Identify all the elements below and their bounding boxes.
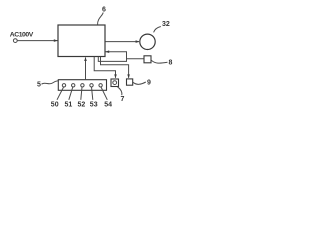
- svg-text:7: 7: [121, 96, 125, 103]
- leader line for 50: [57, 87, 64, 100]
- arrowhead into square 7: [114, 74, 117, 78]
- square 9: [127, 79, 133, 85]
- leader line for 52: [81, 87, 82, 100]
- wire AC input to box 6: [17, 40, 57, 42]
- svg-text:9: 9: [147, 79, 151, 86]
- svg-text:51: 51: [65, 102, 73, 109]
- arrowhead into box 6 right: [105, 50, 109, 53]
- leader line for 8: [151, 60, 167, 63]
- terminal 52 circle: [81, 84, 84, 87]
- leader line for 32: [154, 27, 161, 33]
- svg-text:53: 53: [90, 102, 98, 109]
- svg-text:32: 32: [162, 21, 170, 28]
- svg-text:6: 6: [102, 7, 106, 14]
- square 7 sensor: [111, 79, 119, 87]
- svg-text:AC100V: AC100V: [10, 31, 34, 38]
- terminal 51 circle: [72, 84, 75, 87]
- arrowhead into circle 32: [136, 40, 140, 43]
- terminal 53 circle: [90, 84, 93, 87]
- wire box 6 bottom to square 9: [101, 57, 129, 78]
- circle inside square 7: [113, 81, 117, 85]
- terminal AC input: [13, 39, 17, 43]
- leader line for 53: [92, 87, 93, 100]
- terminal strip 5: [58, 80, 106, 91]
- wire box 6 to circle 32: [106, 41, 140, 43]
- wire box 6 bottom to terminal strip 5: [85, 58, 87, 80]
- wire box 6 right to square 8: [106, 52, 144, 59]
- leader line for 51: [69, 87, 73, 100]
- circle 32 motor: [140, 34, 155, 49]
- square 8: [144, 56, 151, 63]
- terminal 54 circle: [99, 84, 102, 87]
- leader line for 54: [101, 87, 107, 100]
- svg-text:5: 5: [37, 82, 41, 89]
- svg-text:52: 52: [78, 102, 86, 109]
- wire box 6 bottom to square 7: [94, 57, 115, 78]
- leader line for 6: [98, 13, 104, 25]
- box U6 control unit: [58, 25, 105, 57]
- svg-text:8: 8: [169, 59, 173, 66]
- terminal 50 circle: [62, 84, 65, 87]
- leader line for 5: [42, 81, 59, 84]
- arrowhead into box 6 left: [54, 39, 58, 42]
- wire box 6 bottom to junction at square 8 feed: [98, 57, 126, 62]
- arrowhead into box 6 bottom: [84, 57, 87, 61]
- leader line for 9: [133, 82, 146, 84]
- leader line for 7: [118, 87, 122, 95]
- svg-text:54: 54: [104, 102, 112, 109]
- arrowhead into square 9: [127, 74, 130, 78]
- svg-text:50: 50: [51, 102, 59, 109]
